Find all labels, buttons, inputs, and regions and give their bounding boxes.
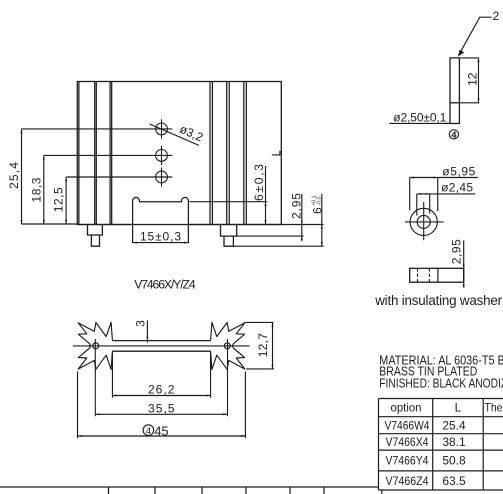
extension lines ø5,95 bbox=[410, 178, 438, 212]
dimension line 35,5 bbox=[95, 413, 227, 415]
left leg pin bbox=[91, 235, 99, 246]
centerline hole H1 bbox=[22, 128, 173, 130]
left cluster vertical centerline bbox=[94, 339, 96, 416]
fin line 3 bbox=[95, 82, 97, 225]
fin line 7 bbox=[211, 82, 213, 225]
svg-text:12,7: 12,7 bbox=[256, 333, 270, 358]
title block tick 3 bbox=[201, 487, 203, 494]
washer vertical centerline bbox=[423, 202, 425, 240]
dimension line 2,95 washer bbox=[463, 240, 465, 287]
svg-text:V7466Z4: V7466Z4 bbox=[386, 474, 429, 488]
extension lines ø2,45 bbox=[417, 194, 430, 216]
title block tick 1 bbox=[108, 487, 110, 494]
dimension line 2,95 bbox=[301, 194, 303, 241]
washer side view rectangle bbox=[410, 268, 464, 282]
dimension line 12,7 bbox=[272, 322, 274, 369]
centerline hole H3 bbox=[66, 176, 172, 178]
left cluster pin hole bbox=[93, 343, 99, 349]
washer inner circle bbox=[417, 215, 430, 228]
leader line for 2 bbox=[459, 17, 492, 55]
washer horizontal centerline bbox=[405, 221, 444, 223]
svg-text:50.8: 50.8 bbox=[442, 454, 466, 468]
svg-text:ø3,2: ø3,2 bbox=[178, 122, 206, 145]
title block tick right bbox=[381, 490, 383, 494]
right leg wide part bbox=[221, 225, 237, 237]
svg-text:45: 45 bbox=[154, 423, 168, 438]
svg-text:6: 6 bbox=[311, 207, 325, 214]
svg-text:35,5: 35,5 bbox=[148, 402, 175, 416]
svg-text:V7466W4: V7466W4 bbox=[385, 419, 430, 433]
fin line 2 bbox=[94, 82, 96, 225]
hole H2 middle bbox=[156, 146, 168, 165]
washer side hidden line 1 bbox=[417, 268, 419, 282]
leader line for web thickness 3 bbox=[146, 320, 148, 342]
extension line 45 left bbox=[77, 372, 79, 439]
svg-text:2,95: 2,95 bbox=[449, 239, 463, 264]
svg-text:12,5: 12,5 bbox=[52, 187, 66, 212]
washer side view solid divider bbox=[437, 268, 439, 282]
svg-text:3: 3 bbox=[134, 320, 148, 327]
dimension line 15±0,3 bbox=[133, 242, 189, 244]
body bottom edge left of tab bbox=[77, 224, 132, 226]
section horizontal centerline bbox=[73, 345, 250, 347]
dimension line ø2,45 bbox=[417, 193, 476, 195]
svg-text:ø2,45: ø2,45 bbox=[441, 181, 473, 195]
mounting tab outline bbox=[133, 197, 189, 243]
svg-text:38.1: 38.1 bbox=[442, 435, 466, 449]
dimension line 26,2 bbox=[112, 395, 210, 397]
title block tick 5 bbox=[289, 487, 291, 494]
extension line leg step bbox=[237, 235, 304, 237]
svg-text:63.5: 63.5 bbox=[442, 474, 466, 488]
svg-text:12: 12 bbox=[466, 72, 480, 86]
extension line 12,7 top bbox=[244, 321, 273, 323]
extension line 12,7 bottom bbox=[246, 368, 274, 370]
fin line 9 bbox=[228, 82, 230, 225]
left leg wide part bbox=[88, 225, 103, 236]
fin line 4 bbox=[109, 82, 111, 225]
svg-text:2,95: 2,95 bbox=[289, 193, 303, 219]
svg-text:26,2: 26,2 bbox=[148, 382, 175, 396]
right leg pin bbox=[224, 236, 233, 246]
svg-text:25,4: 25,4 bbox=[7, 162, 21, 189]
centerline hole H2 bbox=[44, 154, 173, 156]
dimension line 25,4 bbox=[21, 129, 23, 224]
title block tick 4 bbox=[245, 487, 247, 494]
svg-text:V7466X4: V7466X4 bbox=[386, 435, 429, 449]
dimension line ø5,95 bbox=[410, 177, 478, 179]
dimension line 45 bbox=[78, 435, 246, 437]
washer outer circle bbox=[410, 208, 437, 235]
svg-text:25.4: 25.4 bbox=[442, 419, 466, 433]
dimension line 12,5 bbox=[65, 177, 67, 224]
body bottom edge right of tab, extended to right dims bbox=[188, 224, 323, 226]
svg-text:ø5,95: ø5,95 bbox=[442, 164, 475, 178]
svg-text:V7466Y4: V7466Y4 bbox=[386, 454, 429, 468]
circled 4 quantity mark bbox=[449, 129, 458, 140]
extension lines for 12 bbox=[459, 58, 479, 103]
web top line bbox=[112, 340, 210, 342]
right cluster vertical centerline bbox=[227, 339, 229, 416]
heatsink body outline bbox=[77, 82, 281, 225]
extension line 26,2 right bbox=[210, 354, 212, 398]
svg-text:Thermal: Thermal bbox=[485, 401, 503, 415]
svg-text:ø2,50±0,1: ø2,50±0,1 bbox=[393, 111, 446, 125]
leader arrowhead ø2,50 bbox=[446, 122, 450, 124]
table borders bbox=[379, 399, 503, 491]
svg-text:4: 4 bbox=[146, 426, 152, 437]
title block tick 2 bbox=[154, 487, 156, 494]
svg-text:L: L bbox=[455, 401, 462, 415]
bottom extension line to left dims bbox=[22, 223, 78, 225]
extension line tab top to 6±0,3 bbox=[190, 201, 268, 203]
svg-text:with insulating washer: with insulating washer bbox=[374, 293, 502, 308]
dimension line 6 +0,1/-0,3 bbox=[321, 194, 323, 247]
svg-text:6±0,3: 6±0,3 bbox=[252, 164, 266, 201]
pin step line bbox=[450, 102, 459, 104]
leader arrow web thickness bbox=[146, 337, 148, 341]
leader line for hole diameter bbox=[150, 124, 199, 145]
fin line 10 bbox=[243, 82, 245, 225]
dimension line 6±0,3 bbox=[265, 166, 267, 225]
svg-text:4: 4 bbox=[451, 129, 457, 140]
fin line 1 bbox=[78, 82, 80, 225]
washer side hidden line 2 bbox=[428, 268, 430, 282]
extension line 45 right bbox=[244, 372, 246, 439]
leader underline for ø2,50±0,1 bbox=[389, 122, 450, 124]
fin line 6 bbox=[209, 82, 211, 225]
svg-text:18,3: 18,3 bbox=[29, 177, 43, 202]
hole H3 bottom bbox=[156, 167, 168, 186]
fin line 11 bbox=[245, 82, 247, 225]
label 6 with tolerance bbox=[311, 195, 325, 214]
edge jog on right side bbox=[272, 151, 280, 155]
fin line 8 bbox=[226, 82, 228, 225]
fin line 5 bbox=[111, 82, 113, 225]
svg-text:-0.3: -0.3 bbox=[317, 197, 323, 206]
right cluster pin hole bbox=[224, 343, 230, 349]
hole H1 top bbox=[156, 119, 168, 138]
circled 4 quantity mark for 45 bbox=[143, 425, 154, 437]
dimension line 18,3 bbox=[43, 155, 45, 224]
pin body rectangle bbox=[450, 58, 459, 124]
left fin cluster outline bbox=[78, 322, 112, 369]
extension line 26,2 left bbox=[111, 354, 113, 398]
svg-text:FINISHED: BLACK ANODIZED: FINISHED: BLACK ANODIZED bbox=[379, 376, 503, 391]
svg-text:V7466X/Y/Z4: V7466X/Y/Z4 bbox=[134, 278, 196, 292]
dimension line 12 bbox=[478, 58, 480, 103]
right fin cluster outline bbox=[211, 322, 245, 369]
title block tick 6 bbox=[323, 487, 325, 494]
svg-text:15±0,3: 15±0,3 bbox=[140, 229, 181, 243]
extension line pin bottom bbox=[233, 245, 323, 247]
svg-text:2: 2 bbox=[493, 9, 500, 23]
leader arrowhead bbox=[458, 50, 464, 57]
web bottom line bbox=[112, 350, 210, 352]
title block top line bbox=[0, 486, 379, 488]
svg-text:option: option bbox=[391, 401, 422, 415]
